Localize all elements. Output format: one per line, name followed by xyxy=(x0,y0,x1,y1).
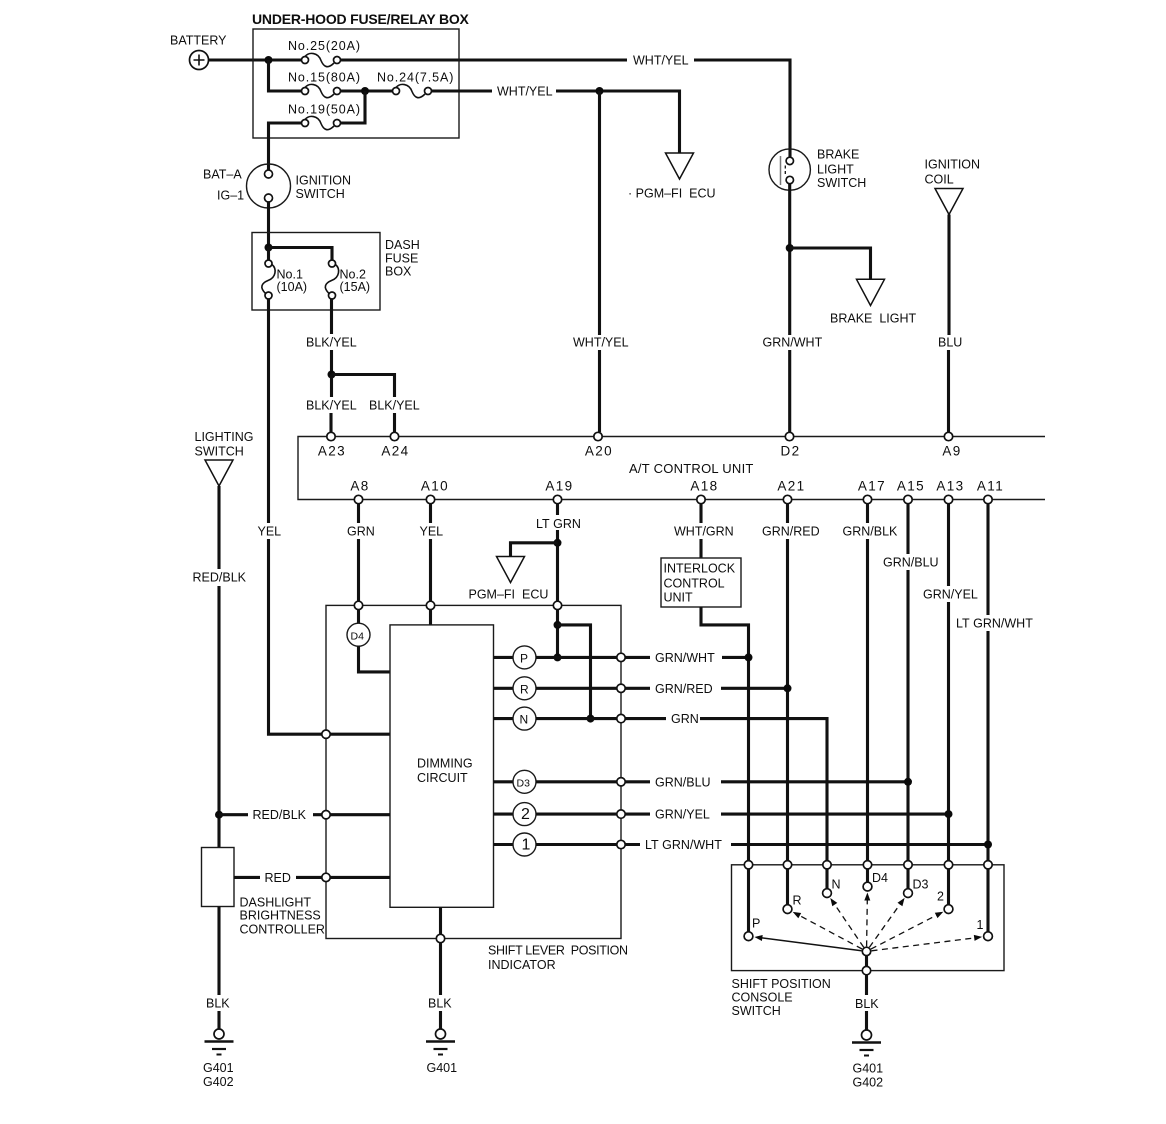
pin A8 xyxy=(350,479,369,504)
wire WHT/YEL to PGM-FI ECU corner xyxy=(556,91,680,153)
wiper arrow to D3 xyxy=(869,898,904,947)
svg-text:No.19(50A): No.19(50A) xyxy=(288,103,361,117)
fuse No.2(15A) xyxy=(325,260,370,299)
svg-text:WHT/YEL: WHT/YEL xyxy=(633,54,689,68)
wire interlock to console (via GRN/WHT node) xyxy=(701,607,749,865)
wire branch to N line xyxy=(558,625,591,719)
svg-text:SWITCH: SWITCH xyxy=(732,1004,781,1018)
svg-text:GRN/YEL: GRN/YEL xyxy=(655,808,710,822)
node LT GRN branch junction xyxy=(554,621,562,629)
wire A19 down (LT GRN) xyxy=(556,504,559,602)
battery xyxy=(170,34,227,70)
svg-text:CONSOLE: CONSOLE xyxy=(732,991,793,1005)
svg-text:GRN/RED: GRN/RED xyxy=(762,525,820,539)
wire GRN/WHT to D2 xyxy=(788,350,791,432)
brake light switch SW2 xyxy=(769,148,866,191)
pin A20 xyxy=(585,432,613,458)
svg-text:BATTERY: BATTERY xyxy=(170,34,227,48)
svg-text:BLK/YEL: BLK/YEL xyxy=(369,399,420,413)
svg-text:2: 2 xyxy=(521,806,530,823)
svg-text:DIMMING: DIMMING xyxy=(417,757,473,771)
svg-text:D3: D3 xyxy=(517,778,531,790)
svg-text:(15A): (15A) xyxy=(340,280,371,294)
svg-text:A13: A13 xyxy=(936,479,964,494)
wire node down to No.19 row xyxy=(341,91,366,123)
wire BLK/YEL to A24 xyxy=(393,413,396,432)
wire RED from controller into indicator xyxy=(234,876,390,879)
node RED/BLK junction at lighting wire xyxy=(215,811,223,819)
wire LT GRN inside indicator xyxy=(556,610,559,658)
pin D3 out of indicator xyxy=(617,778,625,786)
svg-text:FUSE: FUSE xyxy=(385,252,418,266)
svg-text:GRN: GRN xyxy=(347,525,375,539)
wire dimming circuit to indicator bottom xyxy=(439,907,442,934)
pin GRN into indicator xyxy=(354,601,362,609)
svg-text:COIL: COIL xyxy=(925,173,954,187)
svg-text:CONTROLLER: CONTROLLER xyxy=(240,922,325,936)
lamp D3 xyxy=(494,770,617,793)
node branch on N line xyxy=(587,715,595,723)
svg-text:SWITCH: SWITCH xyxy=(817,176,866,190)
wire GRN (N line) xyxy=(625,719,827,865)
terminal N xyxy=(823,869,841,897)
svg-text:A19: A19 xyxy=(545,479,573,494)
wire top line to brake light switch xyxy=(694,60,790,157)
svg-text:LIGHT: LIGHT xyxy=(817,163,854,177)
wire console to ground (BLK) xyxy=(865,975,868,1030)
svg-text:CIRCUIT: CIRCUIT xyxy=(417,771,468,785)
svg-text:INDICATOR: INDICATOR xyxy=(488,958,556,972)
svg-text:A8: A8 xyxy=(350,479,369,494)
pin A11 xyxy=(977,479,1004,504)
terminal D3 xyxy=(904,869,929,897)
terminal 1 xyxy=(977,869,993,941)
svg-text:A17: A17 xyxy=(858,479,886,494)
svg-text:BLK/YEL: BLK/YEL xyxy=(306,399,357,413)
wire GRN/RED (R line) xyxy=(625,687,787,690)
svg-text:No.15(80A): No.15(80A) xyxy=(288,71,361,85)
svg-text:BRAKE: BRAKE xyxy=(817,148,859,162)
pin console D4 xyxy=(863,861,871,869)
svg-text:P: P xyxy=(520,652,528,666)
svg-text:SHIFT POSITION: SHIFT POSITION xyxy=(732,977,831,991)
wiper arrow to 2 xyxy=(871,912,943,949)
wire A10 to indicator (YEL) xyxy=(429,504,432,602)
svg-text:SHIFT LEVER POSITION: SHIFT LEVER POSITION xyxy=(488,944,628,958)
wire GRN/WHT (P line) xyxy=(625,656,748,659)
node LT GRN on P line xyxy=(554,653,562,661)
wire A13 down (GRN/YEL) xyxy=(947,504,950,865)
svg-text:R: R xyxy=(520,683,529,697)
node LT GRN junction to PGM-FI ECU xyxy=(554,539,562,547)
node dash fuse feed junction xyxy=(265,244,273,252)
wire No.19 to ignition switch xyxy=(269,123,302,171)
pin console D3 xyxy=(904,861,912,869)
pin RED/BLK left into indicator xyxy=(322,811,330,819)
svg-text:GRN: GRN xyxy=(671,712,699,726)
node GRN/RED junction xyxy=(784,684,792,692)
ignition coil xyxy=(925,158,981,215)
fuse No.15(80A) xyxy=(288,71,361,98)
under-hood fuse/relay box xyxy=(252,11,470,138)
svg-text:· PGM–FI ECU: · PGM–FI ECU xyxy=(628,187,716,201)
wire junction to A23 xyxy=(330,375,333,398)
svg-text:A20: A20 xyxy=(585,444,613,459)
svg-text:A15: A15 xyxy=(897,479,925,494)
svg-text:GRN/WHT: GRN/WHT xyxy=(763,336,823,350)
svg-text:A10: A10 xyxy=(421,479,449,494)
wiper arrow to P (selected) xyxy=(754,935,861,951)
wire junction to brake light xyxy=(790,248,871,279)
svg-text:UNIT: UNIT xyxy=(664,591,694,605)
svg-text:RED/BLK: RED/BLK xyxy=(193,571,247,585)
node No.15/No.24/No.19 junction xyxy=(361,87,369,95)
wire No.2 fuse down (BLK/YEL) xyxy=(330,299,333,371)
node GRN/YEL junction xyxy=(945,810,953,818)
pin A17 xyxy=(858,479,886,504)
pin A21 xyxy=(777,479,805,504)
svg-text:GRN/WHT: GRN/WHT xyxy=(655,651,715,665)
wire junction to No.1 fuse xyxy=(267,248,270,261)
svg-text:WHT/YEL: WHT/YEL xyxy=(573,336,629,350)
svg-text:GRN/BLK: GRN/BLK xyxy=(843,525,899,539)
svg-text:P: P xyxy=(752,917,760,931)
pin A9 xyxy=(942,432,961,458)
pin A10 xyxy=(421,479,449,504)
wire YEL (A10) into dimming top xyxy=(429,610,432,625)
wire A11 down (LT GRN/WHT) xyxy=(986,504,989,865)
wire A17 down (GRN/BLK) xyxy=(866,504,869,865)
pin console ground xyxy=(862,966,870,974)
svg-text:BRIGHTNESS: BRIGHTNESS xyxy=(240,909,321,923)
pgm-fi ecu connector (lower) xyxy=(469,557,549,602)
pgm-fi ecu connector (top) xyxy=(628,153,716,201)
svg-text:GRN/RED: GRN/RED xyxy=(655,682,713,696)
interlock control unit xyxy=(661,558,741,607)
wiper arrow to 1 xyxy=(872,935,983,951)
wiper arrow to R xyxy=(793,912,862,949)
A/T control unit box xyxy=(298,437,1045,500)
wire controller down to ground (BLK) xyxy=(217,907,220,1030)
pin N out of indicator xyxy=(617,714,625,722)
svg-text:BLK: BLK xyxy=(206,997,230,1011)
node LT GRN/WHT junction xyxy=(984,841,992,849)
pin A18 xyxy=(690,479,718,504)
terminal D4 xyxy=(863,869,888,891)
pin A19 xyxy=(545,479,573,504)
svg-text:YEL: YEL xyxy=(420,525,444,539)
ground G401 (center) xyxy=(426,1029,457,1075)
pin A23 xyxy=(318,432,346,458)
dashlight brightness controller xyxy=(202,848,325,937)
svg-text:No.24(7.5A): No.24(7.5A) xyxy=(377,71,454,85)
pin YEL into indicator xyxy=(426,601,434,609)
svg-text:BLK: BLK xyxy=(855,997,879,1011)
svg-text:BOX: BOX xyxy=(385,265,412,279)
svg-text:IGNITION: IGNITION xyxy=(925,158,981,172)
svg-text:IGNITION: IGNITION xyxy=(296,174,352,188)
wire GRN/YEL (2 line) xyxy=(625,813,948,816)
node BLK/YEL split junction xyxy=(328,371,336,379)
svg-text:BAT–A: BAT–A xyxy=(203,168,242,182)
lamp 2 xyxy=(494,803,617,826)
pin LT GRN into indicator xyxy=(553,601,561,609)
wire A15 down (GRN/BLU) xyxy=(906,504,909,865)
svg-text:BLU: BLU xyxy=(938,336,962,350)
svg-text:LT GRN/WHT: LT GRN/WHT xyxy=(956,617,1033,631)
pin 1 out of indicator xyxy=(617,840,625,848)
wire RED/BLK into indicator xyxy=(219,813,390,816)
fuse No.25(20A) xyxy=(288,39,361,67)
svg-text:1: 1 xyxy=(522,837,531,854)
lamp N xyxy=(494,707,617,730)
svg-text:G402: G402 xyxy=(203,1075,234,1089)
svg-text:1: 1 xyxy=(977,918,984,932)
terminal P xyxy=(744,869,760,941)
svg-text:A/T CONTROL UNIT: A/T CONTROL UNIT xyxy=(629,461,754,476)
svg-text:D3: D3 xyxy=(913,878,929,892)
node GRN/WHT junction xyxy=(745,653,753,661)
wire brake switch down xyxy=(788,184,791,335)
pin 2 out of indicator xyxy=(617,810,625,818)
brake light connector xyxy=(830,279,916,325)
svg-text:LT GRN/WHT: LT GRN/WHT xyxy=(645,838,722,852)
svg-text:UNDER-HOOD FUSE/RELAY BOX: UNDER-HOOD FUSE/RELAY BOX xyxy=(252,11,470,27)
svg-text:2: 2 xyxy=(937,890,944,904)
svg-text:GRN/BLU: GRN/BLU xyxy=(655,775,711,789)
fuse No.24(7.5A) xyxy=(377,71,454,98)
svg-text:D4: D4 xyxy=(872,871,888,885)
pin A24 xyxy=(381,432,409,458)
pin console N xyxy=(823,861,831,869)
svg-text:D2: D2 xyxy=(780,444,800,459)
svg-text:G401: G401 xyxy=(427,1061,458,1075)
wire YEL inside indicator to dimming circuit xyxy=(330,733,390,736)
shift lever position indicator box xyxy=(326,605,628,972)
svg-text:A9: A9 xyxy=(942,444,961,459)
ground G401/G402 (right) xyxy=(852,1030,883,1090)
pin console 1 xyxy=(984,861,992,869)
lamp R xyxy=(494,677,617,700)
svg-text:G401: G401 xyxy=(203,1061,234,1075)
pin console R xyxy=(783,861,791,869)
lighting switch connector xyxy=(195,430,254,486)
svg-text:A18: A18 xyxy=(690,479,718,494)
shift position console switch box xyxy=(732,865,1005,1018)
svg-text:YEL: YEL xyxy=(258,525,282,539)
pin indicator bottom xyxy=(436,934,444,942)
svg-text:BRAKE LIGHT: BRAKE LIGHT xyxy=(830,312,916,326)
wire No.15 to node xyxy=(341,89,393,92)
svg-text:G401: G401 xyxy=(853,1062,884,1076)
fuse No.1(10A) xyxy=(262,260,307,299)
pin R out of indicator xyxy=(617,684,625,692)
wiper arrow to D4 xyxy=(864,893,870,947)
svg-text:PGM–FI ECU: PGM–FI ECU xyxy=(469,588,549,602)
svg-text:LIGHTING: LIGHTING xyxy=(195,430,254,444)
lamp 1 xyxy=(494,833,617,856)
svg-text:A24: A24 xyxy=(381,444,409,459)
wiper common terminal xyxy=(862,947,870,966)
node battery feed junction xyxy=(265,56,273,64)
lamp P xyxy=(494,646,617,669)
wire A21 down (GRN/RED) xyxy=(786,504,789,865)
svg-text:DASH: DASH xyxy=(385,238,420,252)
pin P out of indicator xyxy=(617,653,625,661)
pin A13 xyxy=(936,479,964,504)
svg-text:BLK/YEL: BLK/YEL xyxy=(306,336,357,350)
svg-text:GRN/YEL: GRN/YEL xyxy=(923,588,978,602)
svg-text:WHT/YEL: WHT/YEL xyxy=(497,85,553,99)
svg-text:D4: D4 xyxy=(351,631,365,643)
svg-text:A11: A11 xyxy=(977,479,1004,494)
svg-text:INTERLOCK: INTERLOCK xyxy=(664,562,736,576)
pin D2 xyxy=(780,432,800,458)
svg-text:A23: A23 xyxy=(318,444,346,459)
pin YEL left into indicator xyxy=(322,730,330,738)
terminal 2 xyxy=(937,869,953,913)
svg-text:R: R xyxy=(793,894,802,908)
node GRN/BLU junction xyxy=(904,778,912,786)
lamp D4 xyxy=(347,610,390,672)
svg-text:G402: G402 xyxy=(853,1076,884,1090)
svg-text:SWITCH: SWITCH xyxy=(296,187,345,201)
wire A8 to indicator (GRN) xyxy=(357,504,360,602)
wire A18 down (WHT/GRN) xyxy=(699,504,702,558)
wire GRN/BLU (D3 line) xyxy=(625,780,908,783)
wire ignition coil to A9 xyxy=(947,215,951,433)
svg-text:RED/BLK: RED/BLK xyxy=(253,808,307,822)
pin RED left into indicator xyxy=(322,873,330,881)
node WHT/YEL junction to A20 xyxy=(596,87,604,95)
wire LT GRN/WHT (1 line) xyxy=(625,843,988,846)
pin console P xyxy=(744,861,752,869)
svg-text:DASHLIGHT: DASHLIGHT xyxy=(240,895,312,909)
ignition switch SW1 xyxy=(203,164,351,208)
wire lighting switch down (RED/BLK) xyxy=(217,486,220,848)
wire junction to A24 branch xyxy=(332,375,395,398)
ground G401/G402 (left) xyxy=(203,1029,234,1089)
terminal R xyxy=(783,869,801,913)
svg-text:BLK: BLK xyxy=(428,997,452,1011)
node brake light junction xyxy=(786,244,794,252)
svg-text:WHT/GRN: WHT/GRN xyxy=(674,525,734,539)
wire WHT/YEL vertical to A20 xyxy=(598,91,601,432)
svg-text:N: N xyxy=(520,713,529,727)
svg-text:IG–1: IG–1 xyxy=(217,189,244,203)
wire junction to PGM-FI ECU triangle xyxy=(511,543,558,557)
wire junction down to No.15 row xyxy=(269,60,302,91)
dimming circuit xyxy=(390,625,494,907)
wire YEL vertical from No.1 fuse xyxy=(269,299,322,734)
wire battery to fuse box (WHT/YEL top feed) xyxy=(209,58,628,61)
wire indicator to ground (BLK) xyxy=(439,943,442,1029)
wire BLK/YEL to A23 xyxy=(329,413,332,432)
svg-text:(10A): (10A) xyxy=(277,280,308,294)
pin A15 xyxy=(897,479,925,504)
dash fuse box xyxy=(252,233,420,311)
svg-text:N: N xyxy=(832,878,841,892)
svg-text:CONTROL: CONTROL xyxy=(664,577,725,591)
svg-text:RED: RED xyxy=(265,871,291,885)
wire No.24 out xyxy=(432,89,493,92)
svg-text:No.25(20A): No.25(20A) xyxy=(288,39,361,53)
svg-text:A21: A21 xyxy=(777,479,805,494)
wire junction to No.2 fuse xyxy=(269,248,333,261)
wire ignition switch to dash fuse box xyxy=(267,202,270,248)
svg-text:SWITCH: SWITCH xyxy=(195,445,244,459)
wiper arrow to N xyxy=(830,898,863,947)
fuse No.19(50A) xyxy=(288,103,361,130)
svg-text:LT GRN: LT GRN xyxy=(536,517,581,531)
pin console 2 xyxy=(944,861,952,869)
svg-text:GRN/BLU: GRN/BLU xyxy=(883,556,939,570)
